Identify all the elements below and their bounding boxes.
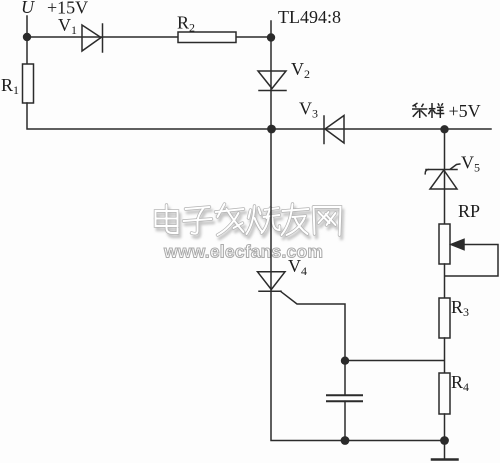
node: gate junction dot xyxy=(341,357,349,365)
svg-text:R3: R3 xyxy=(451,297,469,319)
diode V1 xyxy=(82,25,101,51)
wire: sampling junction down through V5 to RP xyxy=(444,129,446,224)
wire: R2 to top junction xyxy=(236,36,271,38)
svg-text:RP: RP xyxy=(458,201,480,221)
svg-text:R1: R1 xyxy=(1,75,19,97)
wire: R3 to R4 xyxy=(444,338,446,373)
node: top junction dot xyxy=(267,33,275,41)
label 采样 (sampling) xyxy=(412,103,444,118)
svg-text:V3: V3 xyxy=(299,99,318,121)
svg-text:+5V: +5V xyxy=(449,101,481,121)
svg-text:R4: R4 xyxy=(451,372,469,394)
wire: R1 down, then rail along y=129 to right edge xyxy=(27,103,491,129)
diode V2 xyxy=(258,71,286,89)
node: mid junction dot xyxy=(267,125,276,134)
node: U input dot xyxy=(23,33,31,41)
capacitor C1 xyxy=(344,361,346,395)
svg-text:V1: V1 xyxy=(58,15,77,37)
wire: R4 to ground xyxy=(444,414,446,459)
potentiometer RP xyxy=(439,224,450,264)
svg-text:R2: R2 xyxy=(177,13,195,35)
svg-text:TL494:8: TL494:8 xyxy=(278,7,341,27)
resistor R4 xyxy=(439,373,450,414)
wire: RP to R3 xyxy=(444,264,446,298)
watermark www.elecfans.com xyxy=(163,242,323,262)
resistor R2 xyxy=(178,32,236,43)
thyristor V4 xyxy=(258,272,286,290)
zener diode V5 xyxy=(425,170,428,174)
svg-text:U: U xyxy=(21,0,35,17)
resistor R3 xyxy=(439,298,450,338)
wire: V4 gate lead xyxy=(281,291,346,360)
node: sampling junction dot xyxy=(440,125,448,133)
resistor R1 xyxy=(23,64,34,103)
diode V3 xyxy=(325,116,344,144)
wire: gate junction to R3/R4 junction xyxy=(345,360,444,362)
wire: mid junction down through V4 to bottom rail xyxy=(271,129,445,441)
node: ground junction dot xyxy=(440,436,449,445)
wire top: U node through V1 to R2 xyxy=(27,36,178,38)
svg-text:V2: V2 xyxy=(291,59,310,81)
wire: U node down to R1 xyxy=(26,16,28,64)
svg-text:V5: V5 xyxy=(461,153,480,175)
node: cap bottom junction dot xyxy=(341,436,350,445)
ground xyxy=(432,458,458,461)
wire: stub TL494 pin 8 down through V2 to mid junction xyxy=(270,21,272,129)
